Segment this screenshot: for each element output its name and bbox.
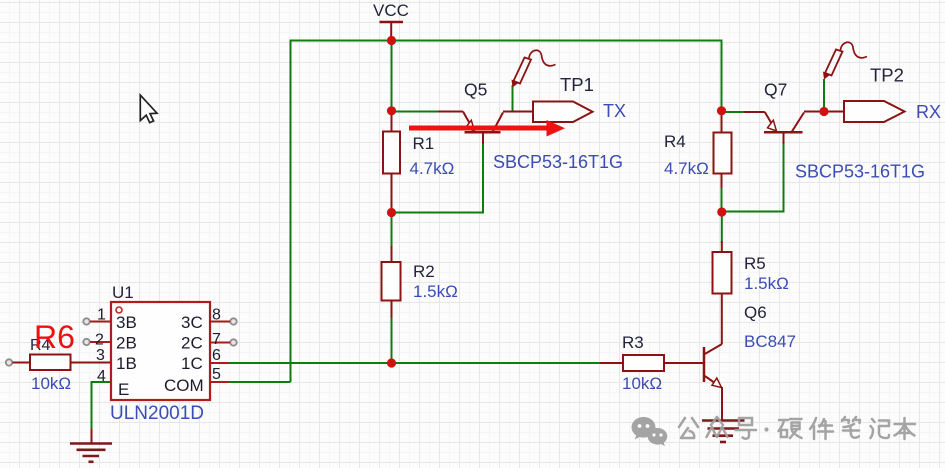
- annotation red arrow: [409, 120, 565, 137]
- svg-text:3B: 3B: [116, 313, 137, 332]
- svg-text:1.5kΩ: 1.5kΩ: [744, 274, 789, 293]
- pin 5: [210, 381, 229, 383]
- svg-text:RX: RX: [916, 102, 941, 122]
- pin 6: [210, 362, 229, 364]
- junction node R4 bottom: [717, 207, 726, 216]
- svg-text:TX: TX: [603, 101, 626, 121]
- svg-text:10kΩ: 10kΩ: [622, 374, 662, 393]
- svg-text:4.7kΩ: 4.7kΩ: [664, 159, 709, 178]
- wire R2 top lead: [391, 213, 393, 249]
- svg-text:1C: 1C: [181, 354, 203, 373]
- svg-text:3C: 3C: [181, 313, 203, 332]
- svg-text:TP2: TP2: [870, 65, 904, 86]
- svg-text:VCC: VCC: [373, 1, 409, 20]
- resistor R6: [6, 337, 111, 393]
- wire COM pin5 to rail: [211, 381, 291, 383]
- svg-text:Q5: Q5: [464, 80, 487, 100]
- wire Q7 emitter node: [722, 111, 747, 113]
- test point TP2 probe: [823, 42, 904, 85]
- char jian: [810, 418, 833, 439]
- svg-text:R3: R3: [622, 333, 644, 352]
- junction node R2 bottom: [387, 358, 396, 367]
- resistor R4: [664, 111, 732, 188]
- svg-text:2C: 2C: [181, 334, 203, 353]
- svg-text:Q7: Q7: [764, 80, 787, 100]
- svg-text:1: 1: [97, 307, 106, 324]
- transistor Q7 (PNP SBCP53): [744, 80, 925, 182]
- svg-text:R1: R1: [413, 134, 435, 153]
- svg-text:6: 6: [212, 347, 221, 364]
- wire TP2 probe stem: [823, 79, 825, 112]
- wire Q5 emitter node: [392, 111, 441, 113]
- power port VCC: [373, 1, 409, 41]
- svg-text:R2: R2: [413, 262, 435, 281]
- junction node VCC: [387, 36, 396, 45]
- svg-text:4: 4: [97, 368, 106, 385]
- junction node Q5 emitter: [387, 106, 396, 115]
- char ji: [871, 419, 890, 438]
- svg-text:5: 5: [212, 366, 221, 383]
- svg-text:R5: R5: [744, 254, 766, 273]
- char ben: [895, 418, 916, 439]
- char gong: [679, 418, 698, 438]
- wire TP1 probe stem: [512, 85, 514, 112]
- svg-text:8: 8: [212, 307, 221, 324]
- svg-text:SBCP53-16T1G: SBCP53-16T1G: [795, 162, 925, 182]
- resistor R2: [382, 246, 458, 318]
- wire R4 node to Q7 base: [722, 142, 784, 212]
- port RX: [844, 101, 941, 122]
- wire R5 top lead: [721, 212, 723, 243]
- resistor R1: [383, 112, 454, 213]
- svg-text:2B: 2B: [116, 334, 137, 353]
- pin 7: [230, 339, 236, 345]
- char zhong: [707, 417, 728, 437]
- svg-text:Q6: Q6: [744, 303, 767, 322]
- svg-text:4.7kΩ: 4.7kΩ: [410, 159, 455, 178]
- svg-text:TP1: TP1: [560, 74, 594, 95]
- watermark icon: [632, 417, 668, 446]
- test point TP1 probe: [512, 50, 594, 95]
- pin 1: [83, 318, 89, 324]
- char hao: [736, 418, 757, 439]
- wire VCC stem down to Q5 node: [391, 41, 393, 111]
- resistor R3: [600, 333, 704, 393]
- svg-text:SBCP53-16T1G: SBCP53-16T1G: [493, 152, 623, 172]
- port TX: [533, 101, 626, 122]
- char dot: [764, 427, 768, 431]
- junction node Q7 emitter: [717, 106, 726, 115]
- junction node TP2: [819, 107, 828, 116]
- ground under Q6: [702, 416, 745, 442]
- transistor Q5 (PNP SBCP53): [438, 80, 623, 173]
- wire VCC top rail: [291, 41, 722, 383]
- svg-text:1B: 1B: [116, 354, 137, 373]
- wire R1 bottom to Q5 base: [392, 142, 484, 213]
- svg-text:COM: COM: [164, 376, 204, 395]
- transistor Q6 (NPN BC847): [704, 303, 796, 417]
- wire R2 bottom to bus: [391, 316, 393, 363]
- mouse cursor: [140, 95, 157, 123]
- svg-text:10kΩ: 10kΩ: [31, 374, 71, 393]
- svg-text:R6: R6: [34, 319, 75, 355]
- junction node R1 bottom: [387, 208, 396, 217]
- IC U1 ULN2001D: [83, 283, 236, 424]
- wire R4 bottom lead: [721, 185, 723, 212]
- char ying: [779, 419, 802, 438]
- watermark text 公众号·硬件笔记本: [679, 417, 915, 439]
- resistor R5: [713, 241, 789, 344]
- svg-text:7: 7: [212, 331, 221, 348]
- ground under U1: [70, 429, 112, 462]
- svg-text:BC847: BC847: [744, 332, 796, 351]
- svg-text:E: E: [118, 380, 129, 399]
- wire U1 pin4 to ground: [92, 382, 112, 430]
- wire output bus pin6 to R3: [211, 362, 603, 364]
- svg-text:U1: U1: [112, 283, 134, 302]
- svg-text:2: 2: [95, 332, 104, 349]
- char bi: [842, 417, 860, 438]
- svg-text:ULN2001D: ULN2001D: [110, 403, 204, 424]
- svg-text:3: 3: [96, 347, 105, 364]
- pin 2: [83, 339, 89, 345]
- svg-text:R4: R4: [664, 132, 686, 151]
- pin 8: [230, 318, 236, 324]
- svg-text:1.5kΩ: 1.5kΩ: [413, 282, 458, 301]
